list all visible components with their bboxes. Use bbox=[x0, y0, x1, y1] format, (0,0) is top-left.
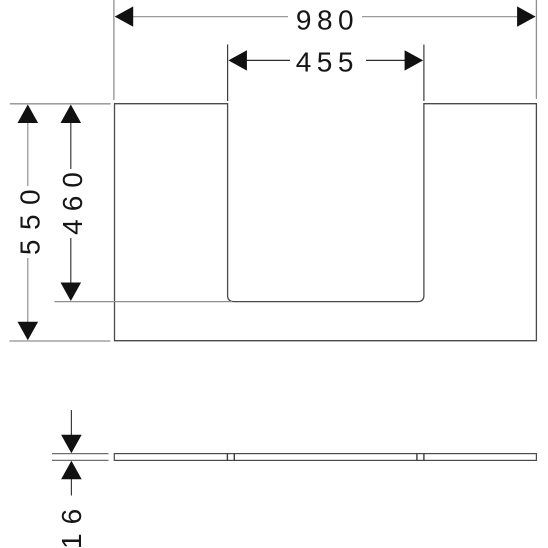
svg-text:980: 980 bbox=[296, 4, 359, 35]
dimension 550: dimension line upper segment bbox=[27, 122, 29, 186]
dimension 455: dimension line right segment bbox=[366, 59, 406, 61]
dimension 460: dimension line lower segment bbox=[70, 238, 72, 284]
dimension 460: middle extension line at cutout bottom bbox=[55, 301, 233, 303]
dimension 16: upper extension line bbox=[52, 453, 109, 455]
dimension 460: top arrowhead bbox=[61, 105, 82, 124]
dimension 460: dimension line upper segment bbox=[70, 122, 72, 169]
shared top extension line for 550 and 460 bbox=[10, 103, 111, 105]
dimension 980: right extension line bbox=[535, 0, 537, 99]
dimension 980: dimension line left segment bbox=[131, 16, 288, 18]
dimension 16: dimension line below bbox=[70, 479, 72, 496]
dimension 16: down arrowhead bbox=[61, 435, 82, 454]
svg-text:550: 550 bbox=[14, 180, 45, 255]
dimension 16: up arrowhead bbox=[61, 461, 82, 480]
dimension 980: dimension line right segment bbox=[362, 16, 519, 18]
dimension 980: left extension line bbox=[113, 0, 115, 100]
dimension 16: dimension line above bbox=[70, 410, 72, 436]
dimension 455: right extension line bbox=[423, 45, 425, 102]
dimension 455: right arrowhead bbox=[405, 50, 424, 70]
side view: joint line left-inner bbox=[233, 454, 235, 461]
dimension 455: left arrowhead bbox=[228, 50, 247, 70]
dimension 550: bottom arrowhead bbox=[18, 322, 39, 341]
svg-text:16: 16 bbox=[56, 500, 87, 548]
dimension 455: left extension line bbox=[227, 45, 229, 102]
svg-text:460: 460 bbox=[57, 164, 88, 235]
dimension 980: left arrowhead bbox=[115, 6, 134, 26]
svg-text:455: 455 bbox=[296, 47, 359, 78]
dimension 16: lower extension line bbox=[52, 459, 109, 461]
side view: joint line right-outer bbox=[423, 454, 425, 461]
dimension 550: top arrowhead bbox=[18, 105, 39, 124]
side view: thin panel bar outline bbox=[114, 454, 536, 461]
dimension 550: bottom extension line bbox=[10, 340, 111, 342]
dimension 455: dimension line left segment bbox=[245, 59, 290, 61]
top view: console panel outline with U-cutout bbox=[115, 104, 537, 341]
side view: joint line left-outer bbox=[226, 454, 228, 461]
dimension 980: right arrowhead bbox=[517, 6, 536, 26]
dimension 550: dimension line lower segment bbox=[27, 258, 29, 323]
side view: joint line right-inner bbox=[416, 454, 418, 461]
dimension 460: bottom arrowhead bbox=[61, 283, 82, 302]
